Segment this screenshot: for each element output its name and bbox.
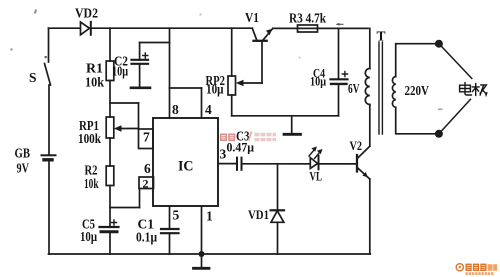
wire RP1 to R2 <box>109 138 111 166</box>
diode VD2 <box>81 22 91 35</box>
wire VD1 branch <box>277 164 279 211</box>
wire mid horizontal RP2-gnd-C4 <box>232 115 339 117</box>
wire C5 bottom lead <box>109 232 111 254</box>
transistor V1 <box>252 28 272 83</box>
wire pin3 lead <box>218 163 237 165</box>
wire pin2 riser <box>139 189 141 208</box>
wire pin4 riser <box>201 88 203 118</box>
svg-text:10μ: 10μ <box>310 74 326 89</box>
potentiometer RP2 <box>228 76 236 95</box>
pin 7 notch <box>139 129 154 149</box>
potentiometer RP1 <box>106 117 114 138</box>
svg-text:GB: GB <box>15 146 31 161</box>
wire top rail left segment <box>49 27 253 29</box>
ground under pin1 <box>194 254 210 268</box>
wire C2 top link <box>140 42 170 44</box>
svg-text:4: 4 <box>205 102 212 117</box>
wire C4 top lead <box>338 28 340 79</box>
label electrode (dian ji) <box>460 83 487 96</box>
wire R2 to pin2 <box>110 207 140 209</box>
svg-text:0.1μ: 0.1μ <box>136 230 157 245</box>
wire electrode top diagonal <box>439 44 472 79</box>
wire V2 emitter lead <box>369 179 371 254</box>
wire pin4 link <box>170 87 202 89</box>
resistor R1 <box>106 61 114 81</box>
wire transformer primary top lead <box>369 28 371 68</box>
transformer T secondary winding <box>392 77 395 108</box>
svg-text:VD2: VD2 <box>75 6 98 21</box>
wire pin8 riser <box>169 28 171 118</box>
wire pin1 lead <box>201 206 203 254</box>
switch S blade <box>45 64 51 86</box>
capacitor C4 <box>331 71 348 84</box>
wire pin7 riser <box>138 103 140 129</box>
svg-text:6V: 6V <box>348 81 360 96</box>
svg-text:10k: 10k <box>85 75 104 90</box>
svg-text:6: 6 <box>144 161 151 176</box>
svg-text:10μ: 10μ <box>80 229 97 244</box>
wire primary to V2 collector <box>369 105 371 147</box>
svg-text:3: 3 <box>220 147 227 162</box>
svg-text:1: 1 <box>206 209 213 224</box>
node pin1 rail junction <box>199 251 205 257</box>
svg-text:9V: 9V <box>17 161 30 176</box>
svg-text:220V: 220V <box>405 83 430 98</box>
svg-text:V2: V2 <box>350 138 363 153</box>
svg-text:VL: VL <box>310 169 323 184</box>
wire left branch upper <box>48 28 50 62</box>
wire C4 bottom lead <box>338 84 340 116</box>
wire secondary bottom <box>396 107 439 134</box>
wire RP2 top lead <box>231 28 233 76</box>
watermark EE blocks <box>220 134 235 142</box>
transformer core <box>379 42 382 134</box>
wire VD1 bottom lead <box>277 222 279 254</box>
LED VL <box>309 147 323 170</box>
RP1 wiper arrow <box>114 125 139 131</box>
op-amp IC box <box>153 118 218 206</box>
wire C1 bottom lead <box>169 233 171 254</box>
wire RP2 bottom lead <box>231 95 233 116</box>
svg-text:2: 2 <box>143 177 149 191</box>
svg-text:5: 5 <box>173 208 180 223</box>
resistor R3 <box>298 25 318 32</box>
svg-text:10μ: 10μ <box>206 82 224 97</box>
artifact arrow near C4 junction <box>336 23 343 26</box>
svg-text:T: T <box>377 29 386 44</box>
wire C2 bottom lead <box>139 64 141 88</box>
capacitor C3 <box>237 158 242 170</box>
wire R1 top lead <box>109 28 111 61</box>
capacitor C5 <box>100 220 119 232</box>
transistor V2 <box>357 146 370 179</box>
wire top rail right segment <box>273 27 368 29</box>
scan noise specks <box>11 9 443 110</box>
RP2 wiper arrow from V1 base <box>236 80 262 86</box>
diode VD1 <box>271 210 284 222</box>
wire left branch mid <box>48 85 50 155</box>
wire secondary top <box>396 44 439 77</box>
battery GB plate short <box>44 158 52 161</box>
svg-text:R3 4.7k: R3 4.7k <box>289 11 326 26</box>
node electrode bottom terminal <box>435 130 443 138</box>
svg-text:10μ: 10μ <box>112 64 128 79</box>
ground under C2 <box>131 87 150 90</box>
capacitor C1 <box>161 229 179 233</box>
watermark bottom-right logo <box>456 264 497 275</box>
wire R1 to RP1 <box>109 81 111 118</box>
transformer T primary winding <box>365 69 370 105</box>
node R1-RP1 junction wire to pin7 <box>110 102 139 104</box>
capacitor C2 <box>132 43 149 64</box>
resistor R2 <box>106 166 114 186</box>
wire electrode bottom diagonal <box>439 99 471 134</box>
svg-text:V1: V1 <box>245 10 259 25</box>
battery GB plate long <box>42 154 56 156</box>
svg-text:VD1: VD1 <box>248 208 269 222</box>
svg-text:IC: IC <box>178 159 194 175</box>
svg-text:8: 8 <box>172 102 179 117</box>
wire R2 bottom lead <box>109 186 111 228</box>
svg-text:C3: C3 <box>236 129 250 144</box>
svg-text:7: 7 <box>143 130 150 145</box>
ground mid <box>284 116 301 135</box>
pin 2 notch <box>139 177 154 189</box>
svg-text:10k: 10k <box>84 176 99 191</box>
svg-text:S: S <box>29 70 37 85</box>
svg-text:R1: R1 <box>86 61 103 76</box>
wire pin5 lead <box>169 206 171 229</box>
svg-text:100k: 100k <box>78 131 101 146</box>
watermark slash <box>249 132 252 141</box>
wire bottom rail <box>49 253 371 255</box>
watermark small pink text <box>255 133 277 141</box>
wire left branch lower <box>48 160 50 254</box>
node electrode top terminal <box>435 40 443 48</box>
wire C3 to V2 base <box>242 163 358 165</box>
